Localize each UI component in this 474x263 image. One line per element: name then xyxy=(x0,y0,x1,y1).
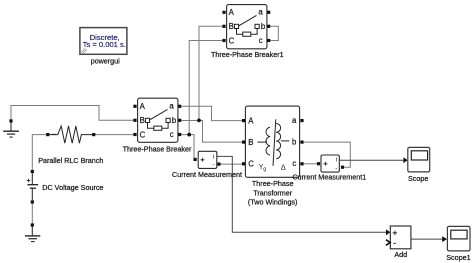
Add block xyxy=(390,226,411,249)
arrow into Add xyxy=(386,229,390,235)
parallel RLC branch left port xyxy=(46,133,49,136)
parallel RLC branch right port xyxy=(92,133,95,136)
svg-text:A: A xyxy=(140,102,146,111)
svg-text:C: C xyxy=(248,160,254,169)
transformer right ports xyxy=(300,119,303,122)
svg-text:+: + xyxy=(27,178,31,185)
svg-text:Current Measurement: Current Measurement xyxy=(172,170,242,179)
svg-text:c: c xyxy=(170,130,174,139)
svg-text:i: i xyxy=(213,154,214,161)
Three-Phase Breaker block xyxy=(138,98,178,142)
svg-text:Transformer: Transformer xyxy=(253,188,292,197)
svg-text:+: + xyxy=(392,227,397,237)
svg-text:powergui: powergui xyxy=(91,57,121,66)
wire transformer c to current measurement1 xyxy=(304,163,317,165)
Scope screen xyxy=(411,151,427,160)
wire RLC right to breaker C xyxy=(95,134,133,136)
svg-text:B: B xyxy=(248,138,253,147)
breaker1 right loop b-c xyxy=(270,26,278,40)
svg-text:b: b xyxy=(261,22,266,31)
Scope1 block xyxy=(447,226,470,251)
transformer winding icon xyxy=(257,119,289,166)
svg-text:i: i xyxy=(336,157,337,164)
svg-text:a: a xyxy=(292,116,297,125)
wire Add to Scope1 xyxy=(411,238,443,240)
svg-text:+: + xyxy=(200,155,205,164)
svg-text:+: + xyxy=(323,159,328,168)
svg-text:C: C xyxy=(229,36,235,45)
wire current measurement i to Add xyxy=(217,156,386,232)
breaker left ports xyxy=(133,105,136,108)
svg-text:Scope: Scope xyxy=(408,174,428,183)
svg-text:-: - xyxy=(393,238,396,248)
junction phase c xyxy=(187,133,191,137)
breaker1 right ports xyxy=(267,11,270,14)
ground G1 port xyxy=(9,119,12,122)
svg-text:Δ: Δ xyxy=(281,162,286,171)
current measurement1 right port xyxy=(341,166,344,169)
wire breaker c to current measurement xyxy=(181,135,194,158)
svg-text:A: A xyxy=(229,8,235,17)
svg-text:-: - xyxy=(335,165,337,172)
svg-text:C: C xyxy=(140,130,146,139)
ground G2 symbol xyxy=(25,227,40,242)
breaker right ports xyxy=(178,105,181,108)
Current Measurement block xyxy=(198,151,217,168)
wire breaker b to transformer B xyxy=(181,121,242,143)
svg-text:c: c xyxy=(259,36,263,45)
powergui resize mark xyxy=(82,49,87,54)
Scope block xyxy=(408,147,430,172)
current measurement left port xyxy=(194,158,197,161)
parallel RLC branch red tick xyxy=(52,133,55,135)
wire current measurement1 i to Scope xyxy=(339,159,403,161)
svg-text:B: B xyxy=(140,116,145,125)
arrow into Scope xyxy=(403,157,407,163)
arrow into Scope1 xyxy=(442,236,447,242)
ground G2 port xyxy=(31,223,34,226)
wire RLC to DC source xyxy=(32,135,46,170)
transformer left ports xyxy=(242,119,245,122)
ground G1 wire to breaker B xyxy=(11,106,133,121)
breaker1 switch icon xyxy=(234,15,259,36)
wire DC source to ground G2 xyxy=(31,204,33,224)
svg-text:b: b xyxy=(172,116,177,125)
junction phase b xyxy=(197,119,201,123)
Add unconnected input chevron xyxy=(386,240,390,246)
wire breaker1 C down to phase c xyxy=(189,41,222,135)
wire transformer b loop to current measurement1 minus xyxy=(304,142,351,167)
svg-text:A: A xyxy=(248,116,254,125)
svg-text:Ts = 0.001 s.: Ts = 0.001 s. xyxy=(83,40,126,49)
breaker switch icon xyxy=(145,109,170,130)
svg-text:Three-Phase Breaker1: Three-Phase Breaker1 xyxy=(211,50,284,59)
svg-text:a: a xyxy=(258,8,263,17)
svg-text:B: B xyxy=(229,22,234,31)
svg-text:c: c xyxy=(292,159,296,168)
resistor zigzag xyxy=(49,126,92,143)
wire breaker1 B down to phase b xyxy=(199,26,222,120)
DC voltage source icon xyxy=(27,173,38,200)
Scope1 screen xyxy=(451,230,467,239)
svg-text:Scope1: Scope1 xyxy=(446,253,470,262)
Three-Phase Transformer block xyxy=(245,106,299,177)
wire breaker a to transformer A xyxy=(181,106,242,120)
svg-text:DC Voltage Source: DC Voltage Source xyxy=(42,183,103,192)
Current Measurement1 block xyxy=(321,155,339,172)
svg-text:Parallel RLC Branch: Parallel RLC Branch xyxy=(38,156,103,165)
svg-text:-: - xyxy=(212,161,214,168)
powergui block xyxy=(80,28,127,55)
svg-text:Add: Add xyxy=(394,250,407,259)
DC voltage source bottom port xyxy=(31,200,34,203)
ground G1 symbol xyxy=(3,123,19,138)
Three-Phase Breaker1 block xyxy=(227,5,267,49)
current measurement right port xyxy=(217,163,220,166)
svg-text:g: g xyxy=(263,167,266,173)
breaker1 left ports xyxy=(222,11,225,14)
current measurement1 left port xyxy=(317,162,320,165)
svg-text:Three-Phase: Three-Phase xyxy=(252,179,294,188)
wire current measurement minus to transformer C xyxy=(221,163,243,165)
svg-text:b: b xyxy=(292,138,297,147)
svg-text:Three-Phase Breaker: Three-Phase Breaker xyxy=(123,144,192,153)
svg-text:a: a xyxy=(169,102,174,111)
DC voltage source top port xyxy=(31,170,34,173)
svg-text:Current Measurement1: Current Measurement1 xyxy=(292,173,366,182)
svg-text:(Two Windings): (Two Windings) xyxy=(248,197,298,206)
